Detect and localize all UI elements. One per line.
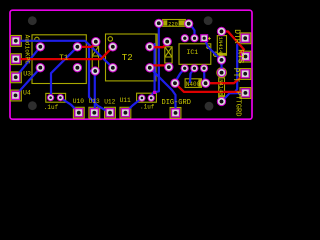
wire U2 pad to T2 top-left pad	[16, 47, 113, 59]
wire stub to C1 bottom pad	[89, 70, 95, 72]
svg-text:U12: U12	[104, 98, 115, 105]
svg-text:PTT: PTT	[231, 68, 240, 83]
mounting hole bottom-right	[205, 102, 214, 111]
right pin DTR	[241, 34, 249, 42]
wire U4 pad to T1 bottom-left pad	[16, 68, 41, 95]
D1 pads	[217, 27, 225, 64]
D3 pads	[171, 79, 210, 87]
header pin U3	[12, 73, 20, 81]
wire D1 top pad to RTS pad	[222, 32, 246, 57]
C1 pads	[91, 38, 100, 76]
C2 pads	[163, 37, 173, 71]
svg-text:PTTGRD: PTTGRD	[233, 91, 241, 116]
right header silk boxes	[240, 33, 251, 99]
wire IC1 pin5 down	[190, 68, 194, 82]
svg-text:N4148: N4148	[217, 79, 224, 96]
capacitor C2 (X-box) outline	[165, 47, 172, 63]
svg-text:U11: U11	[120, 97, 131, 104]
IC1 pads	[181, 35, 208, 72]
op-to IC1 outline	[179, 44, 218, 65]
svg-text:.1uf: .1uf	[140, 103, 155, 110]
bottom pin U11	[121, 109, 129, 117]
resistor R1 outline	[163, 20, 186, 27]
right pin RTS	[242, 53, 250, 61]
bottom pin U13	[90, 109, 98, 117]
diode D1 outline	[217, 36, 226, 56]
svg-text:RTS: RTS	[235, 49, 244, 64]
diode D2 outline	[217, 68, 227, 98]
wire C4 left pad to U11 pad	[125, 98, 141, 113]
wire D1 bottom to D2 top	[220, 60, 222, 73]
capacitor C4 outline	[137, 93, 157, 102]
header pin U2	[12, 55, 20, 63]
wire R1 left pad down	[155, 23, 159, 92]
right pin PTTGRD	[241, 89, 249, 97]
wire T2 bottom-right pad to DIG-GRD pad	[150, 68, 176, 113]
mounting hole top-left	[28, 16, 37, 25]
svg-text:1N4148: 1N4148	[217, 37, 224, 57]
T1 pads	[36, 43, 81, 72]
svg-text:U3: U3	[23, 71, 31, 78]
wire IC1 square pad to D1 bottom pad	[204, 38, 221, 60]
R1 pads	[155, 19, 193, 28]
wire T2 bottom-right pad to C2 bottom pad	[150, 65, 169, 67]
wire R1 right pad to IC1 pin2	[189, 24, 195, 39]
wire U3 pad to T1 top-left pad	[16, 47, 41, 77]
transformer T2 outline	[106, 34, 156, 81]
wire branch down x89 to U12	[89, 45, 110, 113]
capacitor C1 (X-box) outline	[92, 46, 98, 70]
svg-text:.1uf: .1uf	[44, 104, 59, 111]
wire D2 bottom pad to PTTGRD pad	[222, 93, 246, 101]
wire via to C4 right pad	[151, 44, 154, 98]
header pin U4	[12, 91, 20, 99]
wire C3 right pad to U10 pad	[60, 98, 78, 113]
wire T2 top-right pad to C2 top pad	[150, 43, 167, 47]
wire IC1 pin6 down	[203, 68, 205, 78]
svg-text:U10: U10	[73, 98, 84, 105]
svg-text:U13: U13	[89, 98, 100, 105]
T2 pads	[109, 43, 154, 72]
D2 pads	[217, 68, 225, 105]
wire net1: U1 pad to T2 bottom-left pad	[16, 41, 113, 68]
svg-text:220: 220	[168, 21, 178, 27]
svg-text:DTR: DTR	[232, 29, 241, 44]
IC1 plus mark	[208, 37, 211, 40]
via	[153, 91, 156, 94]
bottom header silk boxes	[73, 107, 181, 118]
C3 pads	[47, 94, 63, 100]
svg-text:T1: T1	[59, 55, 69, 63]
C4 pads	[139, 95, 155, 101]
IC1 pin marker dot	[206, 45, 210, 49]
wire DTR pad down right edge	[235, 38, 245, 92]
svg-text:DIG-GRD: DIG-GRD	[162, 99, 191, 107]
svg-text:N400: N400	[186, 81, 201, 88]
small silk notch right of T2	[148, 34, 157, 47]
capacitor C3 outline	[46, 93, 66, 102]
svg-text:IC1: IC1	[187, 49, 199, 56]
wire D3 left pad to PTTGRD pad	[175, 83, 245, 92]
right pin PTT	[241, 70, 249, 78]
diode D3 outline	[185, 79, 201, 88]
board outline	[10, 10, 252, 119]
DIG-GRD pin	[172, 109, 180, 117]
mounting hole bottom-left	[28, 101, 37, 110]
wire IC1 pin4 down	[175, 68, 185, 83]
wire T1 top-right pad to C1 top pad	[77, 43, 95, 47]
mounting hole top-right	[204, 16, 213, 25]
transformer T1 outline	[32, 35, 86, 84]
svg-text:T2: T2	[122, 53, 133, 63]
svg-text:AudioKPC: AudioKPC	[24, 35, 31, 65]
header U1-U4 silk boxes	[11, 36, 22, 101]
bottom pin U10	[75, 109, 83, 117]
wire C1 bottom to U13 pad	[94, 71, 96, 113]
svg-text:U4: U4	[23, 90, 31, 97]
bottom pin U12	[106, 109, 114, 117]
wire D3 right pad to PTT pad	[206, 74, 246, 83]
wire T1 top-right pad to C3 left pad	[51, 47, 78, 98]
header pin U1	[12, 37, 20, 45]
